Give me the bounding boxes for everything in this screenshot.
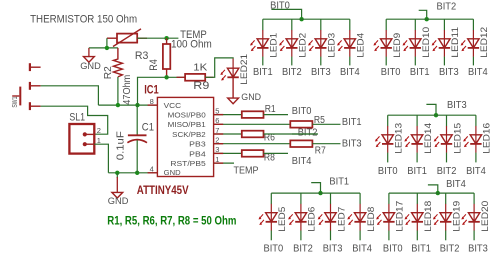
- resistor R8: [242, 150, 264, 157]
- svg-text:LED16: LED16: [482, 123, 492, 154]
- svg-text:BIT1: BIT1: [329, 177, 349, 188]
- LED LED14 symbol: [404, 123, 433, 154]
- wire anode LED3: [320, 19, 322, 30]
- wire anode LED2: [291, 19, 293, 30]
- wire cathode LED7: [330, 231, 332, 241]
- wire cathode LED14: [416, 153, 418, 163]
- svg-text:BIT3: BIT3: [323, 244, 343, 254]
- svg-text:RST/PB5: RST/PB5: [170, 159, 205, 168]
- svg-text:VCC: VCC: [164, 101, 182, 110]
- wire cathode LED6: [300, 231, 302, 241]
- LED LED5 symbol: [259, 204, 288, 232]
- wire cathode LED19: [445, 231, 447, 241]
- wire pin5 to R1: [214, 114, 242, 116]
- wire R9 to LED21: [205, 58, 233, 77]
- svg-text:R7: R7: [315, 146, 326, 157]
- LED LED2 symbol: [279, 30, 308, 58]
- wire anode LED9: [385, 19, 387, 30]
- svg-text:MOSI/PB0: MOSI/PB0: [168, 111, 206, 120]
- wire bus BIT4: [389, 192, 474, 194]
- svg-text:R3: R3: [135, 50, 149, 62]
- wire label stub BIT2: [419, 10, 427, 19]
- wire LED21 cathode to GND3: [232, 78, 234, 99]
- ground GND2 bottom: [112, 173, 123, 198]
- node junction C1 bottom: [135, 171, 139, 175]
- wire R5 to BIT1 label: [312, 123, 340, 125]
- node junction R4 bottom: [164, 75, 168, 79]
- svg-text:LED7: LED7: [336, 207, 346, 232]
- wire cathode LED16: [475, 153, 477, 163]
- svg-text:R9: R9: [193, 80, 209, 92]
- wire over BIT2 label: [292, 133, 318, 135]
- LED LED12 symbol: [461, 27, 490, 58]
- LED LED17 symbol: [376, 201, 405, 232]
- node junction GND stub: [115, 171, 119, 175]
- connector SL1: [69, 124, 94, 154]
- resistor R7: [290, 140, 312, 147]
- wire label stub BIT4: [428, 185, 438, 193]
- svg-text:LED2: LED2: [298, 33, 308, 58]
- svg-text:LED17: LED17: [395, 201, 405, 232]
- svg-text:BIT0: BIT0: [383, 244, 403, 254]
- svg-text:0.1uF: 0.1uF: [115, 131, 127, 160]
- wire C1 top: [136, 105, 138, 135]
- svg-text:BIT1: BIT1: [407, 166, 427, 177]
- wire anode LED8: [359, 193, 361, 204]
- wire pin6 to R5: [214, 123, 291, 125]
- svg-text:BIT3: BIT3: [342, 138, 362, 149]
- svg-text:BIT1: BIT1: [342, 117, 362, 128]
- resistor R2 zigzag: [113, 48, 122, 77]
- svg-text:R1: R1: [265, 104, 276, 115]
- wire switch bottom contact to SL1 pin 2: [41, 106, 108, 134]
- svg-text:BIT1: BIT1: [410, 67, 430, 78]
- svg-text:BIT2: BIT2: [440, 244, 460, 254]
- svg-text:8: 8: [150, 97, 154, 106]
- wire anode LED16: [475, 115, 477, 126]
- svg-text:LED6: LED6: [307, 207, 317, 232]
- wire anode LED5: [270, 193, 272, 204]
- wire anode LED17: [388, 193, 390, 204]
- ground GND3 under LED21: [228, 98, 239, 104]
- wire cathode LED1: [262, 57, 264, 66]
- svg-text:BIT2: BIT2: [293, 244, 313, 254]
- svg-text:LED21: LED21: [239, 54, 249, 85]
- svg-text:SW1: SW1: [12, 97, 19, 108]
- wire R8 to BIT4 label: [264, 152, 289, 154]
- svg-text:BIT3: BIT3: [468, 244, 488, 254]
- svg-text:PB4: PB4: [189, 149, 206, 158]
- wire thermistor left down: [106, 38, 108, 48]
- svg-text:LED18: LED18: [423, 201, 433, 232]
- svg-text:IC1: IC1: [144, 84, 159, 96]
- node junction BIT1 stub: [318, 191, 322, 195]
- svg-text:BIT1: BIT1: [253, 67, 273, 78]
- svg-text:LED3: LED3: [327, 33, 337, 58]
- wire anode LED4: [349, 19, 351, 30]
- switch SW1: [12, 63, 40, 110]
- wire anode LED15: [446, 115, 448, 126]
- svg-text:BIT2: BIT2: [437, 1, 457, 12]
- svg-text:BIT3: BIT3: [311, 67, 331, 78]
- svg-text:BIT4: BIT4: [466, 166, 486, 177]
- svg-text:BIT3: BIT3: [439, 67, 459, 78]
- wire label stub BIT1: [311, 183, 320, 194]
- capacitor C1: [127, 135, 147, 142]
- wire anode LED10: [414, 19, 416, 30]
- wire anode LED1: [262, 19, 264, 30]
- LED LED18 symbol: [405, 201, 434, 232]
- wire R6 to BIT2 label: [264, 133, 318, 135]
- wire cathode LED3: [320, 57, 322, 66]
- wire cathode LED17: [388, 231, 390, 241]
- LED LED4 symbol: [337, 30, 366, 58]
- wire switch middle contact to VCC rail: [41, 86, 99, 105]
- svg-text:GND: GND: [108, 196, 129, 207]
- node junction R2/rail: [116, 103, 120, 107]
- wire anode LED7: [330, 193, 332, 204]
- wire label stub BIT3: [426, 104, 436, 115]
- svg-text:100 Ohm: 100 Ohm: [171, 38, 212, 50]
- wire R4 bottom to R9: [167, 76, 186, 78]
- svg-text:GND: GND: [80, 61, 101, 72]
- svg-text:BIT4: BIT4: [352, 244, 372, 254]
- wire pin2 to R7: [214, 143, 291, 145]
- svg-text:4: 4: [150, 165, 154, 174]
- svg-text:BIT0: BIT0: [292, 106, 312, 117]
- LED LED21 symbol: [220, 54, 249, 85]
- wire cathode LED9: [385, 57, 387, 66]
- svg-text:LED19: LED19: [452, 201, 462, 232]
- wire pin3 to R8: [214, 152, 242, 154]
- wire anode LED20: [473, 193, 475, 204]
- svg-text:SL1: SL1: [69, 111, 85, 123]
- resistor R4: [163, 38, 170, 77]
- wire pin1 to TEMP label: [214, 162, 234, 164]
- svg-text:THERMISTOR 150 Ohm: THERMISTOR 150 Ohm: [30, 13, 137, 25]
- thermistor R3 body: [107, 29, 147, 47]
- wire R7 to BIT3 label: [312, 143, 340, 145]
- wire anode LED12: [472, 19, 474, 30]
- wire cathode LED8: [359, 231, 361, 241]
- node junction BIT3 stub: [434, 113, 438, 117]
- wire anode LED19: [445, 193, 447, 204]
- svg-text:LED9: LED9: [392, 33, 402, 58]
- node junction BIT2 stub: [425, 17, 429, 21]
- svg-text:R2: R2: [102, 66, 114, 79]
- LED LED15 symbol: [434, 123, 463, 154]
- resistor R6: [242, 131, 264, 138]
- wire anode LED14: [416, 115, 418, 126]
- svg-text:R4: R4: [148, 59, 160, 71]
- IC IC1 ATTINY45V: [157, 97, 213, 176]
- svg-text:BIT2: BIT2: [437, 166, 457, 177]
- LED LED19 symbol: [433, 201, 462, 232]
- LED LED1 symbol: [250, 30, 279, 58]
- wire cathode LED11: [443, 57, 445, 66]
- wire C1 bottom: [136, 140, 138, 173]
- wire cathode LED13: [387, 153, 389, 163]
- svg-text:SCK/PB2: SCK/PB2: [172, 130, 206, 139]
- resistor R1: [242, 111, 264, 118]
- svg-text:LED8: LED8: [366, 207, 376, 232]
- wire R1 to BIT0 label: [264, 114, 289, 116]
- wire thermistor right to TEMP: [137, 37, 178, 39]
- wire bus BIT0: [263, 18, 350, 20]
- svg-text:BIT2: BIT2: [298, 127, 318, 138]
- wire cathode LED15: [446, 153, 448, 163]
- node junction thermistor/GND/R2: [105, 46, 109, 50]
- svg-text:TEMP: TEMP: [234, 165, 259, 177]
- ground GND1 top-left: [84, 48, 95, 62]
- LED LED11 symbol: [432, 27, 461, 58]
- wire VCC rail to IC pin 8: [98, 104, 157, 106]
- wire cathode LED18: [416, 231, 418, 241]
- svg-text:GND: GND: [164, 168, 182, 177]
- svg-text:1K: 1K: [193, 61, 207, 73]
- LED LED20 symbol: [461, 201, 490, 232]
- node junction C1-R4/rail: [135, 103, 139, 107]
- svg-text:R1, R5, R6, R7, R8 = 50 Ohm: R1, R5, R6, R7, R8 = 50 Ohm: [107, 216, 236, 228]
- svg-text:PB3: PB3: [189, 140, 206, 149]
- LED LED9 symbol: [373, 30, 402, 58]
- node junction BIT0 stub: [299, 17, 303, 21]
- wire pin7 to R6: [214, 133, 242, 135]
- wire ground rail to IC pin 4: [108, 172, 157, 174]
- svg-text:LED10: LED10: [421, 27, 431, 58]
- wire anode LED18: [416, 193, 418, 204]
- svg-text:C1: C1: [142, 122, 154, 134]
- wire rail up to R4 bottom: [138, 77, 167, 105]
- wire cathode LED4: [349, 57, 351, 66]
- svg-text:BIT4: BIT4: [340, 67, 360, 78]
- svg-text:LED4: LED4: [356, 33, 366, 58]
- LED LED6 symbol: [288, 204, 317, 232]
- svg-text:LED12: LED12: [479, 27, 489, 58]
- wire label stub BIT0: [271, 9, 301, 19]
- svg-text:LED1: LED1: [269, 33, 279, 58]
- node junction BIT4 stub: [436, 191, 440, 195]
- svg-text:BIT0: BIT0: [378, 166, 398, 177]
- wire cathode LED2: [291, 57, 293, 66]
- LED LED10 symbol: [403, 27, 432, 58]
- wire anode LED6: [300, 193, 302, 204]
- wire cathode LED12: [472, 57, 474, 66]
- LED LED16 symbol: [463, 123, 492, 154]
- svg-text:LED14: LED14: [423, 123, 433, 154]
- svg-text:BIT1: BIT1: [411, 244, 431, 254]
- svg-text:LED11: LED11: [450, 27, 460, 58]
- resistor R5: [290, 121, 312, 128]
- svg-text:MISO/PB1: MISO/PB1: [168, 120, 206, 129]
- wire R2 bottom to VCC rail: [117, 77, 119, 105]
- svg-text:BIT3: BIT3: [447, 100, 467, 111]
- wire cathode LED10: [414, 57, 416, 66]
- svg-text:ATTINY45V: ATTINY45V: [137, 185, 189, 197]
- wire bus BIT2: [386, 18, 473, 20]
- LED LED3 symbol: [308, 30, 337, 58]
- wire cathode LED20: [473, 231, 475, 241]
- svg-text:2: 2: [97, 126, 101, 135]
- svg-text:LED20: LED20: [480, 201, 490, 232]
- svg-text:GND: GND: [241, 92, 261, 103]
- wire anode LED13: [387, 115, 389, 126]
- LED LED7 symbol: [318, 204, 347, 232]
- svg-text:BIT4: BIT4: [468, 67, 488, 78]
- wire cathode LED5: [270, 231, 272, 241]
- svg-text:BIT2: BIT2: [282, 67, 302, 78]
- svg-text:LED13: LED13: [394, 123, 404, 154]
- wire anode LED11: [443, 19, 445, 30]
- svg-text:BIT4: BIT4: [446, 179, 466, 190]
- LED LED8 symbol: [347, 204, 376, 232]
- svg-text:47Ohm: 47Ohm: [121, 74, 133, 104]
- svg-text:BIT0: BIT0: [264, 244, 284, 254]
- resistor R9: [177, 74, 214, 81]
- wire bus BIT1: [271, 192, 360, 194]
- svg-text:LED15: LED15: [452, 123, 462, 154]
- svg-text:LED5: LED5: [277, 207, 287, 232]
- wire SL1 pin1 to ground rail: [94, 144, 108, 173]
- svg-text:BIT0: BIT0: [381, 67, 401, 78]
- svg-text:BIT4: BIT4: [292, 156, 312, 167]
- wire gnd-R2 horizontal: [89, 47, 118, 49]
- wire bus BIT3: [388, 114, 476, 116]
- LED LED13 symbol: [375, 123, 404, 154]
- node junction at R4 top: [164, 36, 168, 40]
